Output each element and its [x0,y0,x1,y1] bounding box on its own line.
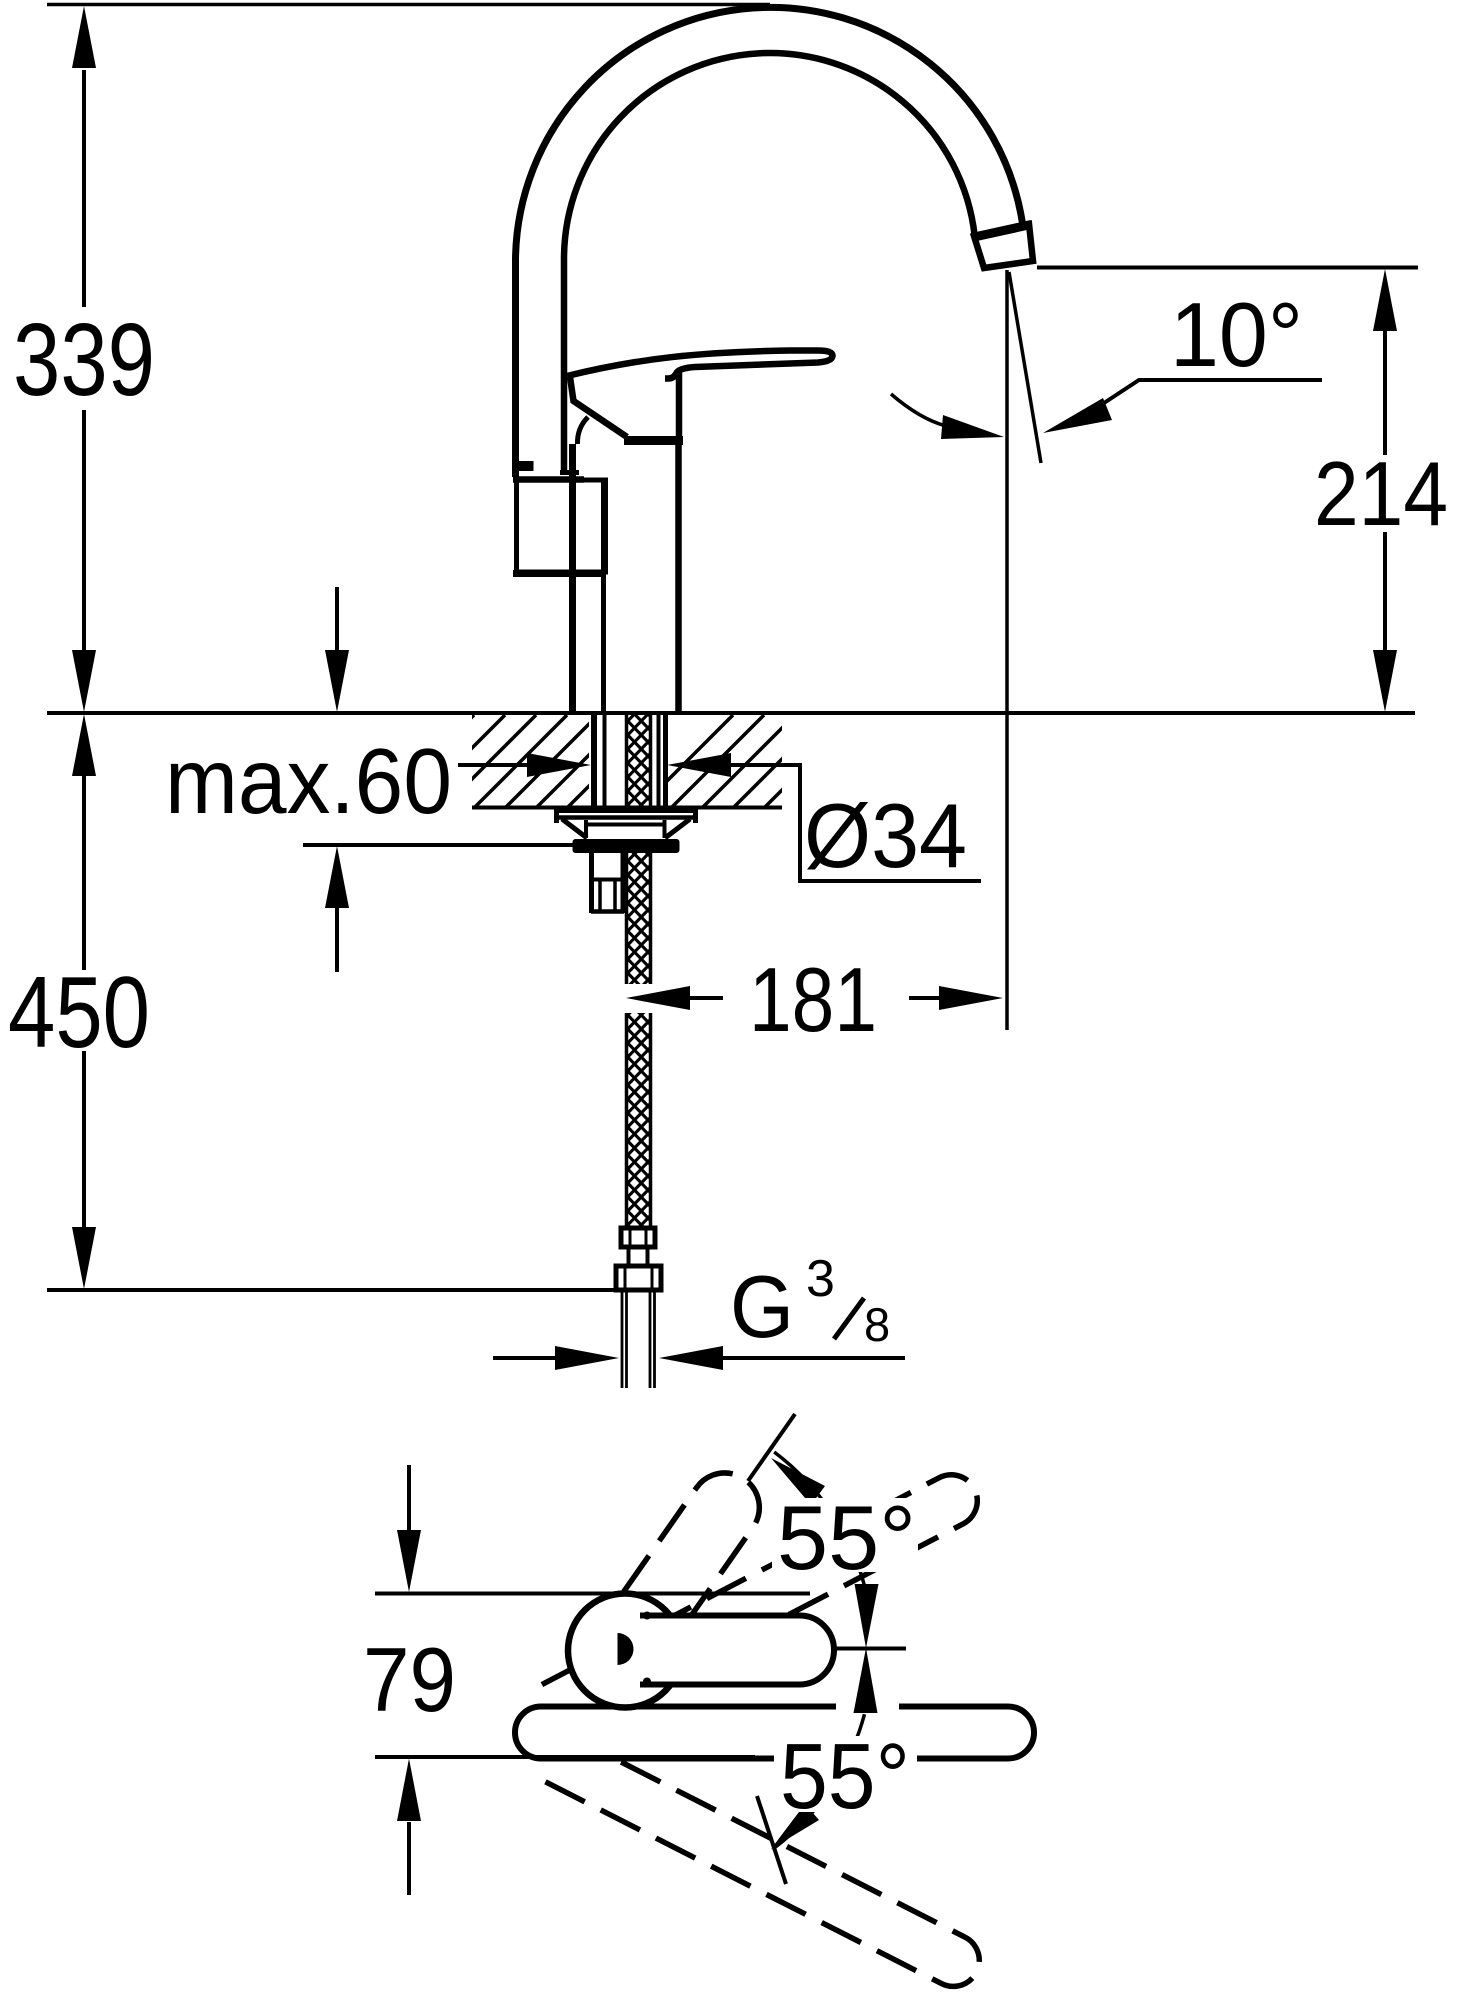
plan bottom reference line [375,1755,755,1759]
lever handle side view [567,351,833,379]
10deg swing arrow [941,415,1004,439]
hose end sleeve [621,1228,655,1247]
svg-text:450: 450 [8,957,150,1069]
outlet tilt line 10deg [1009,272,1041,463]
dimension 214 line [1383,331,1387,652]
mounting stud [592,853,624,913]
lower 55 text [774,1736,917,1812]
svg-text:79: 79 [363,1630,456,1731]
svg-text:Ø34: Ø34 [804,786,967,887]
top datum line [47,3,770,7]
protrusion block [513,461,534,471]
dimension 181 left line [690,996,723,1000]
10deg leader arrow [1043,398,1112,433]
svg-text:55°: 55° [777,1488,916,1589]
inner pipe jog [560,470,579,475]
body left edge / shank left [569,444,576,711]
max.60 left leader [458,763,529,767]
dimension 450 arrow up [72,714,96,776]
spout bar plan view [515,1707,1034,1759]
knob circle plan view [568,1594,682,1708]
svg-text:8: 8 [864,1298,890,1351]
mounting nut [573,839,680,853]
dashed handle rotated 55 [624,1459,773,1631]
dimension 339 arrow up [72,6,96,68]
dimension 450 line [82,776,86,1228]
G3/8 left arrow [555,1346,619,1370]
dimension 181 right line [909,996,941,1000]
G3/8 right line [721,1356,905,1360]
dimension 79 line lower [407,1822,411,1895]
svg-text:181: 181 [749,950,877,1051]
dimension 214 arrow up [1373,269,1397,331]
G3/8 pipe [622,1290,655,1388]
countertop upper pointer line [335,587,339,650]
shank through countertop [591,714,597,810]
lower 55 tick [757,1796,786,1884]
countertop hatch right [640,715,857,808]
upper 55 swing arc [774,1452,864,1586]
svg-text:55°: 55° [780,1724,910,1828]
dimension 450 arrow down [72,1227,96,1289]
hose thin section [629,1247,648,1266]
dimension 214 arrow down [1373,650,1397,712]
10deg swing arc [891,394,946,426]
hose nut [616,1266,661,1290]
fastening cone [562,819,690,838]
upper 55 tick [748,1414,795,1481]
svg-text:10°: 10° [1170,285,1303,386]
mounting box [517,480,606,572]
bow-tie reference line [833,1647,906,1651]
washer flange [554,809,698,813]
dimension 339 arrow down [72,650,96,712]
dimension 79 arrow down [397,1530,421,1592]
dimension 450 bottom reference line [47,1288,617,1292]
dashed spout rotated up [542,1466,986,1731]
braid gap for 181 arrow [620,984,656,1013]
svg-text:3: 3 [806,1250,835,1308]
10deg leader line [1104,380,1322,403]
G3/8 right arrow [659,1346,723,1370]
upper 55 text [772,1498,918,1572]
collar fillet arc [577,417,588,444]
dimension 79 line upper [407,1465,411,1531]
svg-text:max.60: max.60 [165,729,452,833]
outlet datum line [1037,266,1418,270]
countertop bottom line [472,806,782,810]
countertop upper pointer arrow [325,650,349,712]
nut lower pointer arrow [325,846,349,908]
spout outer arc [516,7,1023,477]
knob tick dots [643,1612,651,1620]
outlet axis vertical line [1005,270,1009,1030]
knob D mark [618,1633,634,1665]
cartridge collar [570,377,627,437]
dimension 339 line [82,70,86,651]
G3/8 slash [834,1298,864,1339]
plan top reference line [375,1592,810,1596]
dimension 181 left arrow [626,986,690,1010]
max.60 right arrow [667,753,731,777]
upper arc arrowhead [771,1458,825,1505]
dashed spout rotated down [542,1734,988,1996]
nut lower pointer line [335,908,339,972]
dimension 79 arrow up [397,1759,421,1822]
svg-text:339: 339 [13,302,155,417]
max.60 left arrow [527,753,591,777]
braided hose upper segment [625,714,652,810]
aerator band [974,224,1033,268]
svg-text:G: G [730,1257,794,1356]
countertop top line [47,711,1415,715]
bow-tie arrows [855,1584,879,1648]
bar top edge gap [836,1700,899,1715]
lever plan view [640,1616,834,1685]
lower arc arrowhead [771,1804,819,1849]
countertop hatch left [381,715,660,808]
lower 55 swing arc [774,1714,864,1848]
svg-text:214: 214 [1314,444,1448,545]
braided hose lower segment [625,853,652,1228]
dimension 181 right arrow [939,986,1003,1010]
max.60 right leader to diameter label [729,765,981,881]
dimension G3/8 left line [493,1356,557,1360]
nut lower reference line [303,843,573,847]
spout inner arc [564,53,975,471]
body right edge [675,443,682,711]
shank right line [601,478,606,711]
